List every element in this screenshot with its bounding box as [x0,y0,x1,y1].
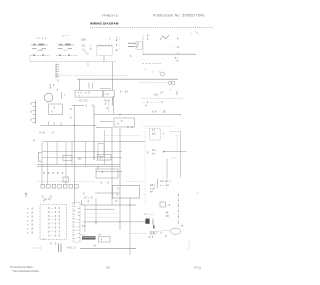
defrost relay solid block [145,219,149,224]
svg-text:··˙8: ··˙8 [174,59,179,63]
connector strip tall box [73,203,80,243]
connector pin row of boxes [41,184,45,188]
wire main horizontal bus L1 [77,78,178,80]
svg-text:M·s: M·s [152,148,157,152]
wire horizontal run y105 [72,105,84,107]
svg-text:·: · [190,243,191,246]
svg-text:·˙8: ·˙8 [167,203,171,207]
svg-text:·˙·8··˙···: ·˙·8··˙··· [126,55,140,58]
dotted label row under bus [139,81,168,83]
svg-text:·˙·: ·˙· [152,113,155,117]
svg-text:8·: 8· [33,139,35,146]
svg-text:8·: 8· [32,223,35,227]
svg-text:˙··: ˙·· [172,48,175,52]
door switch DS1 pin comb [96,45,98,47]
wire grid h band y164.5 [37,163,120,165]
svg-text:·ƒ··: ·ƒ·· [197,189,199,200]
wire dashed hook top [170,131,181,133]
svg-text:ƒE·8·E: ƒE·8·E [116,35,118,52]
svg-text:·˙8· ··: ·˙8· ·· [113,199,122,203]
wire branch y151 [163,151,187,153]
svg-text:≡: ≡ [27,228,29,231]
wire grid h y151.5 [42,151,122,153]
svg-text:+: + [145,67,147,71]
wire neutral bus under fan [40,124,96,126]
svg-text:·8˙: ·8˙ [104,103,107,106]
wire grid vertical x57 [56,142,58,165]
control board main dashed box [40,205,67,240]
svg-text:·8 ·8·: ·8 ·8· [126,125,135,129]
capacitor C2 with leads [128,45,135,47]
svg-text:{E·(·8: {E·(·8 [84,197,93,200]
svg-text:· ˙ ·: · ˙ · [63,37,67,41]
svg-text:WIRING DIAGRAM: WIRING DIAGRAM [90,22,119,26]
compressor aux box bottom [99,237,111,243]
svg-text:07-11: 07-11 [194,265,202,269]
svg-text:·˙8··: ·˙8·· [115,187,122,191]
svg-text:˙·.: ˙·. [63,97,66,101]
svg-text:˙: ˙ [25,197,26,201]
junction x120 [119,114,120,115]
svg-text:·8·: ·8· [136,45,139,49]
svg-text:·˙·E: ·˙·E [84,200,90,203]
wire vertical x167 lower [166,159,168,179]
svg-text:38: 38 [166,211,169,215]
compressor motor M1 circle [171,81,175,85]
wire right vertical main [180,132,182,178]
svg-text:·: · [201,38,202,41]
wire vertical drop x75 [74,106,76,205]
wire grid vertical x85 [85,142,87,167]
wire dashed y217 [85,216,118,218]
svg-text:·8·—·8˙·8: ·8·—·8˙·8 [47,218,61,222]
overload protector box [104,90,115,97]
svg-text:·8˙: ·8˙ [100,238,103,241]
svg-text:·˙·: ·˙· [46,96,49,100]
dash row bottom left [32,247,42,249]
wire top horizontal bus [143,53,196,55]
svg-text:.8: .8 [56,89,59,92]
wire dash stub y158 [172,157,178,159]
svg-text:·8·—·8˙·8: ·8·—·8˙·8 [47,214,61,218]
NC NO labels [130,232,147,234]
svg-text:8.·8·: 8.·8· [152,110,157,114]
svg-text:/38: /38 [166,215,170,218]
svg-text:Publication No. 5995577640: Publication No. 5995577640 [153,13,205,17]
svg-text:·8··8·: ·8··8· [148,236,154,239]
ground symbol left [25,193,28,197]
svg-text:¹·8: ¹·8 [161,227,163,235]
svg-text:¹8·: ¹8· [99,233,102,236]
svg-text:▫ᴸᴬᴹᴾ: ▫ᴸᴬᴹᴾ [37,49,44,53]
svg-text:·8··: ·8·· [176,38,180,41]
wire fan motor branch [61,92,63,99]
wire dash x108 column [108,100,110,112]
bracket symbol left [39,153,42,162]
svg-text:e˙8: e˙8 [105,93,109,96]
evaporator fan motor M2 circle [44,93,53,102]
svg-text:E·E·E: E·E·E [31,102,33,122]
svg-text:▫ᴸᴬ: ▫ᴸᴬ [64,49,68,53]
dashed label row y181 [37,180,95,182]
wire grid vertical x47 [47,142,49,185]
start relay circle [168,81,171,84]
wire bus y222 [83,221,145,223]
bus ticks to terminal block [48,122,50,126]
evaporator terminal block TB1 [49,104,63,114]
enclosure left edge dash [29,55,31,61]
svg-text:··: ·· [85,53,87,56]
svg-text:·8·—·8˙·8: ·8·—·8˙·8 [47,226,61,230]
svg-text:≡: ≡ [27,215,29,218]
svg-text:|8|·: |8|· [78,157,82,161]
svg-text:·˙: ·˙ [42,230,44,233]
svg-text:8·: 8· [32,227,35,231]
svg-text:··: ·· [152,136,154,139]
wire bottom bus y248.5 [80,248,136,250]
cabinet connector comb [55,64,57,79]
capacitor C1 with leads [128,42,136,44]
svg-text:·8·—·8˙·8: ·8·—·8˙·8 [47,210,61,214]
defrost timer box top right [150,129,161,141]
wire grid vertical x72 [71,142,73,165]
svg-text:·: · [175,127,176,130]
svg-text:˙··: ˙·· [54,246,57,249]
svg-text:▪·▪·▪·▪: ▪·▪·▪·▪ [97,159,108,162]
thermistor dark block [153,225,155,228]
wire vertical x85 [84,205,86,232]
svg-text:·˙··8: ·˙··8 [116,119,123,123]
svg-text:8·: 8· [32,218,35,222]
svg-text:·· (8·8): ·· (8·8) [148,232,156,235]
svg-text:·8·˙: ·8·˙ [50,110,55,113]
svg-text:·⁄·: ·⁄· [190,32,192,36]
defrost timer box [96,169,118,178]
svg-text:≡: ≡ [27,232,29,235]
wire relay to run bus [112,97,114,105]
svg-text:·˙··˙···˙···˙··˙··: ·˙··˙···˙···˙··˙·· [60,71,93,75]
svg-text:e—·s8: e—·s8 [160,184,169,187]
svg-text:8·: 8· [32,214,35,218]
wire stub from node E [85,51,89,55]
junction dots bus y222 [119,221,120,222]
svg-text:ξ·˙: ξ·˙ [110,38,112,46]
svg-text:·˙: ·˙ [159,33,161,37]
door switch DS1 box [97,46,113,56]
dotted wire run with labels [56,75,129,77]
svg-text:˙····: ˙···· [152,73,158,77]
svg-text:8(ƒ·: 8(ƒ· [154,93,160,97]
wire grid h y171.5 [96,171,122,173]
svg-text:s8·e8·s·: s8·e8·s· [160,179,172,183]
svg-text:·˙E··E: ·˙E··E [48,243,57,246]
wire grid h y141.5 [42,142,145,144]
svg-text:8‡: 8‡ [94,245,97,248]
svg-text:≈≈≈: ≈≈≈ [81,233,86,236]
svg-text:·<·: ·<· [169,89,172,92]
svg-text:8i8s8i8s8i8: 8i8s8i8s8i8 [178,193,180,225]
svg-text:F˙|: F˙| [152,128,155,132]
svg-text:≡: ≡ [27,224,29,227]
svg-text:˙8··: ˙8·· [116,122,122,126]
svg-text:8··˙·8: 8··˙·8 [86,105,95,108]
svg-text:·˙: ·˙ [42,234,44,237]
svg-text:≡: ≡ [27,207,29,210]
compressor relay K1 box [75,90,103,97]
svg-text:—E2·E2·: —E2·E2· [77,99,90,102]
svg-text:(8·: (8· [90,44,92,55]
svg-text:·˙·8·: ·˙·8· [98,170,105,174]
small box grid B [98,155,112,161]
terminal dashes under bus [142,63,161,65]
svg-text:·: · [88,85,89,88]
dashed enclosure top edge left [30,54,50,56]
svg-text:·˙·8··˙··: ·˙·8··˙·· [141,104,154,108]
wire grid h band y166.2 [37,165,120,167]
svg-text:ˡ: ˡ [86,63,87,66]
svg-text:8·€: 8·€ [82,225,86,228]
wire stub y127 under control box [96,126,113,128]
labels row y231 dashes [150,230,160,232]
svg-text:8·: 8· [32,206,35,210]
svg-text:8˙ 8ƒ: 8˙ 8ƒ [120,90,129,94]
svg-text:8·˙: 8·˙ [165,234,168,238]
relay terminal dashed box top [136,42,142,50]
svg-text:8·8: 8·8 [70,107,72,119]
svg-text:a ≠ ² ·: a ≠ ² · [62,35,72,38]
wire grid h y193 [95,192,120,194]
svg-text:·˙: ·˙ [42,227,44,230]
svg-text:·˙: ·˙ [42,223,44,226]
svg-text:˙·: ˙· [146,154,148,158]
wire compressor to ground [176,91,178,96]
svg-text:˙···: ˙··· [98,173,103,177]
dashed stub y181 right [126,180,143,182]
svg-text:·˙: ·˙ [42,215,44,218]
bus junction at compressor branch [111,79,113,90]
svg-text:≡: ≡ [27,219,29,222]
svg-text:·˙: ·˙ [199,34,201,37]
svg-text:8·: 8· [83,191,85,195]
wire from door switch down [103,55,105,61]
compressor run capacitor circle [161,72,165,76]
svg-text:·8·—·8˙·8: ·8·—·8˙·8 [47,222,61,226]
wire stub y121 [100,121,113,123]
sensor cluster box right [160,202,166,207]
dashed row y126 right [142,125,172,127]
svg-text:˙·: ˙· [65,157,67,160]
wire grid h y157 [42,157,122,159]
light switch S1 [31,44,48,46]
defrost thermostat vertical dashed wire [142,36,144,56]
contact dashes S1 [32,48,37,50]
left terminal strip comb [35,101,37,124]
dashed continuation below x166 [166,179,168,192]
svg-text:···: ··· [150,194,153,197]
svg-text:* Non-Illustrated Parts: * Non-Illustrated Parts [12,269,40,273]
dashed run y98 [142,97,183,99]
dashed enclosure top edge mid [56,54,78,56]
wire vertical x120 lower [119,205,121,230]
svg-text:·˙·: ·˙· [63,192,66,196]
svg-text:·8·: ·8· [117,190,119,200]
svg-text:·8···: ·8··· [174,56,179,60]
wire vertical x96 [95,198,97,225]
svg-text:·˙·—: ·˙·— [144,216,150,219]
wire dashed vertical x177 [176,135,178,153]
vertical dotted squiggle right [188,240,190,249]
svg-text:·¡: ·¡ [175,92,177,95]
ticks under dotted line [88,83,90,89]
svg-text:·˙·8: ·˙·8 [50,106,56,109]
svg-text:·8·—·8˙·8: ·8·—·8˙·8 [47,206,61,210]
svg-text:·ƒ·: ·ƒ· [179,113,182,117]
svg-text:·ᴸ··: ·ᴸ·· [60,58,64,61]
svg-text:··8: ··8 [48,86,52,90]
svg-text:·8·—·8˙·8: ·8·—·8˙·8 [47,229,61,233]
svg-text:\8·: \8· [181,225,184,228]
svg-text:·e˙·: ·e˙· [78,94,84,97]
svg-text:8·˙: 8·˙ [107,106,110,110]
svg-text:·ƒ: ·ƒ [63,93,66,97]
svg-text:Eξ8: Eξ8 [81,38,86,42]
svg-text:˙·: ˙· [152,155,154,159]
svg-text:·(8·8)·: ·(8·8)· [43,197,52,201]
wire grid vertical x120 [119,128,121,205]
svg-text:˙: ˙ [53,67,54,71]
wire dashed y213 [85,212,118,214]
svg-text:˙··: ˙·· [140,119,143,123]
svg-text:888: 888 [152,220,154,227]
svg-text:·˙8··˙·8·: ·˙8··˙·8· [98,180,110,184]
svg-text:··: ·· [163,114,165,117]
svg-text:···˙··˙ ···˙·· ·˙·: ···˙··˙ ···˙·· ·˙· [141,58,166,62]
svg-text:¿2·: ¿2· [160,90,164,94]
wire grid vertical x66 [65,142,67,185]
svg-text:e0·: e0· [152,151,156,155]
wire grid vertical x112 [111,128,113,205]
temperature control box [114,118,135,127]
dotted row y135 [105,135,141,137]
svg-text:˙··: ˙·· [47,119,51,122]
svg-text:8 8 8 8 8: 8 8 8 8 8 [43,171,65,175]
svg-text:·˙·˙: ·˙·˙ [99,48,103,52]
cabinet enclosure dashed bottom edge [30,61,116,63]
svg-text:⌐·· ·˙·: ⌐·· ·˙· [163,176,173,179]
wire grid vertical x104 [104,130,106,165]
dashed stub into fan circle [163,230,171,232]
svg-text:Eƒ: Eƒ [82,45,86,48]
bus corner up x81 [80,200,82,205]
icemaker box [113,186,140,199]
bus junction tick [177,53,179,55]
wire bus y205 [81,204,136,206]
svg-text:·˙: ·˙ [42,207,44,210]
svg-text:·8·—·8˙·8: ·8·—·8˙·8 [47,233,61,237]
svg-text:·ƒ·: ·ƒ· [163,129,165,139]
svg-text:8·: 8· [32,231,35,235]
svg-text:·8+8· ˙· 8·: ·8+8· ˙· 8· [38,130,55,134]
enclosure corner right [87,62,89,67]
svg-text:c f ξ a: c f ξ a [37,36,47,40]
junction arrow y151 [163,151,165,153]
wire grid vertical x42 [41,144,43,185]
wire vertical x94 [93,106,95,161]
svg-text:8·˙·: 8·˙· [57,79,63,83]
wire door switch to bus x113 [111,62,113,80]
double tick symbol [58,244,60,253]
solenoid box x98 [98,144,104,157]
wire vertical x113 short [113,96,115,115]
svg-text:ƒ1: ƒ1 [82,48,85,52]
svg-text:FFHB23-UL: FFHB23-UL [102,13,119,17]
contact dashes S2 [58,48,63,50]
title underline rule [90,26,213,28]
wire grid vertical x94b [93,142,95,160]
svg-text:29: 29 [106,266,110,270]
light switch S2 [58,44,75,46]
svg-text:··: ·· [168,34,170,37]
svg-text:≡: ≡ [27,211,29,214]
svg-text:s8|: s8| [152,131,156,135]
svg-text:·˙: ·˙ [42,219,44,222]
fan blade circle bottom [170,228,180,234]
wire vertical x130 lower [129,198,131,255]
svg-text:˙8·: ˙8· [146,38,149,41]
svg-text:·—·8·—·˙·—·8: ·—·8·—·˙·—·8 [141,100,163,104]
svg-text:·A8(·2): ·A8(·2) [66,246,76,250]
wire main bus y114 to right section [94,114,181,116]
svg-text:···: ··· [104,37,107,40]
wire dashed vertical x145 [144,128,146,205]
svg-text:·˙: ·˙ [42,211,44,214]
icemaker thermostat cluster [157,179,159,188]
small box grid C [63,177,69,182]
svg-text:8·: 8· [32,210,35,214]
wire bus y209 [85,208,115,210]
svg-text:·˙··8··˙··: ·˙··8··˙·· [38,238,52,241]
small box grid A [63,155,72,160]
junction dots lower bus [74,125,75,126]
svg-text:··: ·· [175,84,177,87]
wire into overload [100,88,111,90]
